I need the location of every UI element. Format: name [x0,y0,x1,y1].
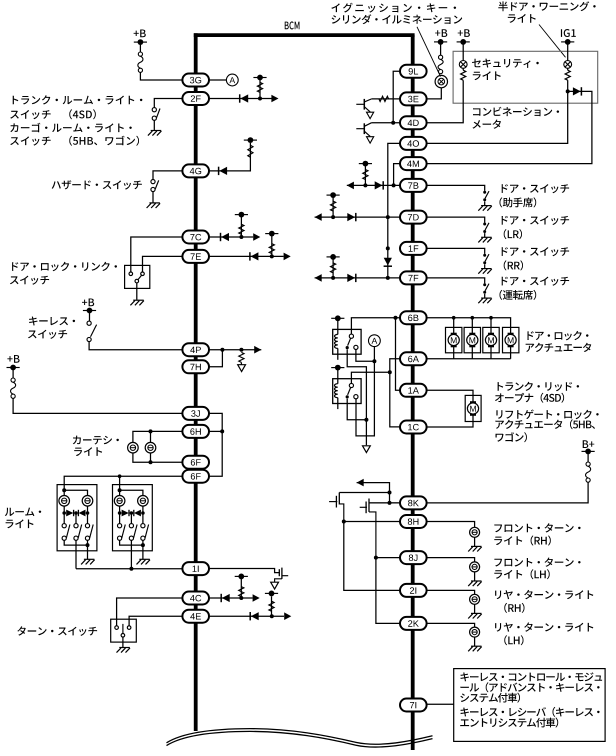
motor trunk lid opener [467,402,478,415]
wire 4C to turn switch [117,598,183,626]
label door lock link switch line2 [10,276,49,285]
door lock actuator 3 box [483,327,499,352]
BCM right bus [411,35,415,750]
wire 6F to room lights feed [64,476,183,488]
switch room light 2 sw2 [129,524,137,541]
wire +B to keyless switch [89,311,91,322]
wire 4P signal row [209,349,262,351]
label BCM [285,21,300,29]
wire fuse to 3J [13,398,183,413]
power node +B supply (security) [457,39,470,45]
wire relay2 coil stub [337,398,339,409]
power node B+ supply (8K) [582,449,595,455]
wire actuator 4 feed drop [510,327,512,333]
power node +B supply (3J) [7,365,20,371]
label door switch 3 line1 [502,247,569,256]
open arrow 4P link out [238,365,246,372]
junction room2 out join [129,567,133,571]
BCM top bus [194,33,415,37]
label +B [435,29,447,37]
wire 8H row [344,522,401,591]
junction tie at 6H [220,429,224,433]
wire 4M to 7B node [394,164,401,186]
wire room1 mid to sw2 [75,513,77,524]
junction 4C pull-up [239,596,243,600]
wire actuator 1 return [453,346,455,358]
label rear turn light LH line2 [504,635,523,645]
ground room light 2 ground [137,559,151,564]
terminal 9L [400,65,427,78]
terminal 7C [182,231,209,244]
label ignition key illumination line2 [332,14,463,24]
terminal 6H [182,425,209,438]
label door switch 2 line1 [502,216,569,225]
wire door switch row 4 [426,278,484,284]
wire 4G to hazard switch [153,171,183,180]
diode room1 right [79,510,86,517]
wire fuse to 8K [426,482,588,503]
switch trunk room light switch [152,108,160,121]
wire room1 sw1 return [64,540,87,545]
wire +B to fuse [139,42,141,52]
open arrow Q1 emitter [367,112,374,118]
relay 2 coil [334,384,337,398]
fuse main fuse (3G feed) [138,52,143,72]
label cargo room light switch line2 [10,136,139,146]
resistor R (7F) [331,263,336,273]
label cargo room light switch line1 [10,123,132,133]
resistor R (4E pull-up) [269,601,274,611]
terminal 3E [400,92,427,105]
wire courtesy return 1 [133,453,183,462]
junction room1 diode L [62,511,66,515]
resistor R (7D) [331,201,336,211]
label trunk room light switch line2 [10,109,96,119]
junction room1 diode R [86,511,90,515]
lamp room light 1 bulb L [59,496,70,507]
diode D (7D) [347,213,356,221]
leader ignition illumination [417,27,441,77]
transistor Q2 (4D driver) [356,123,371,137]
label turn switch [17,626,97,636]
wire keyless switch to 4P [89,342,183,350]
label +B [7,355,19,363]
transistor FET (1I) [275,568,289,582]
wire 7C to link switch [131,237,183,272]
label liftgate line1 [496,410,598,420]
junction room1 return join [86,543,90,547]
power node +B supply (keyless) [83,308,96,314]
power node pull-up supply (4C) [235,574,248,580]
power node pull-up supply (4G) [244,137,257,143]
junction room light 2 feed tap [118,474,122,478]
wire room2 lamp1 to sw1 [119,506,121,523]
junction 7D pull-up [331,215,335,219]
arrow 7D link [315,213,322,221]
wire door switch 2 to ground [484,233,486,237]
terminal 2K [400,617,427,630]
label door switch 1 line2 [500,197,537,207]
door lock actuator 4 box [503,327,519,352]
resistor R (7E pull-up) [269,244,274,254]
terminal 4G [182,164,209,177]
lamp front turn light RH [470,527,480,537]
diode room1 left [66,510,73,517]
motor door lock actuator 1 [448,334,459,347]
power node B+ supply (relay2 coil) [331,365,344,371]
terminal 6F (lower) [182,470,209,483]
wire 2F pull-up row [209,98,272,100]
junction relay out join [364,418,368,422]
terminal 8K [400,496,427,509]
switch room light 2 sw3 [141,524,149,541]
wire 7E resistor link [271,235,273,256]
terminal 7E [182,250,209,263]
wire actuator 1 feed drop [453,318,455,334]
wire 7C resistor link [240,216,242,237]
fuse fuse (3J feed) [11,378,16,398]
power node IG1 supply [561,39,574,45]
wire 7F row [315,277,401,279]
label door lock actuator line1 [527,331,588,341]
terminal 4M [400,157,427,170]
terminal 8J [400,551,427,564]
label B+ [583,440,595,448]
wire fuse to 3G [140,72,182,80]
label +B [134,30,146,38]
junction 7E pull-up [270,254,274,258]
junction actuator 2 feed [471,316,475,320]
label front turn light RH line2 [494,536,551,546]
label combination meter line1 [473,107,559,117]
lamp half door warning light [564,61,572,69]
wire Q2 collector to 4D [372,122,401,124]
wire door switch 1 to ground [484,201,486,205]
arrow 7C signal out [253,233,260,241]
wire door switch row 1 [426,185,484,191]
label room light line1 [5,508,41,517]
terminal 4D [400,116,427,129]
wire warning diode row [426,91,592,163]
label door switch 3 line2 [504,260,523,270]
label security light line2 [473,71,501,80]
switch door-lock-link contacts [129,272,144,283]
transistor FET1 (8K) [329,493,389,522]
terminal 1A [400,384,427,397]
junction 8H/FET1 node [342,520,346,524]
wire 7D resistor link [332,197,334,218]
label keyless module line2 [460,682,599,692]
wire room1 lamp1 to sw1 [63,506,65,523]
wire Q1 collector to 3E [372,98,401,100]
resistor R (4P) [239,352,244,362]
door lock actuator 2 box [464,327,480,352]
wire hazard switch to ground [152,192,154,203]
lamp courtesy light 2 [145,442,156,453]
label keyless module line3 [460,693,520,703]
wire 7E to link switch [143,256,183,272]
label front turn light RH line1 [494,523,580,532]
switch hazard switch [151,180,159,192]
wire turn switch to ground [122,637,124,647]
wire 7B resistor link [364,165,366,185]
lamp front turn light LH [470,562,480,572]
wire room2 feed bar [120,490,143,495]
lamp rear turn light RH [470,594,480,604]
wire front turn light RH to ground [474,537,476,546]
junction courtesy return join [149,460,153,464]
junction 7F chain node [386,276,390,280]
motor door lock actuator 4 [505,334,516,347]
wire harness wave [167,729,433,745]
label door switch 2 line2 [504,229,522,239]
wire room lights to 1I [76,568,183,570]
ground rear turn light RH ground [468,613,482,618]
label keyless module line4 [461,707,600,717]
wire 7C pull-up row [209,236,254,238]
label trunk room light switch line1 [13,95,143,104]
junction 4P to 7H tap [220,348,224,352]
ground door switch 3 ground [478,269,492,274]
junction 8K node [388,501,392,505]
wire 4E row [209,615,284,617]
wire door switch 4 to ground [484,294,486,298]
door lock link switch box [125,265,150,288]
label liftgate line3 [496,432,527,442]
power node pull-up supply (7C) [235,212,248,218]
room light unit 2 box [113,485,153,551]
label door lock link switch line1 [12,262,117,272]
wire room1 feed bar [64,490,87,495]
switch room light 2 sw1 [118,524,126,541]
label trunk lid line2 [495,393,564,403]
ground front turn light LH ground [468,581,482,586]
wire warning node to 4O [426,91,567,143]
lamp room light 2 bulb L [114,496,125,507]
label keyless module line5 [460,718,558,728]
junction actuator 3 feed [489,316,493,320]
label half door warning line1 [498,1,595,11]
terminal 2F [182,92,209,105]
wire room2 lamp2 to sw3 [142,506,144,523]
wire IG1 to warning lamp [567,42,569,61]
wire 6H to tie [209,430,223,432]
junction 9L/4D node [391,121,395,125]
wire 8J row [376,558,400,624]
arrow 7F link [315,274,322,282]
resistor R (warning) [565,70,570,80]
switch turn-switch contacts [115,624,131,637]
wire B+ to fuse [587,451,589,462]
label keyless switch line1 [29,317,75,326]
diode D (7B) [375,181,384,189]
label +B [458,29,470,37]
wire relay1 NC to A line [356,349,375,361]
wire 4P tap down to 7H [209,350,223,367]
wire relay1 coil feed [337,318,339,334]
motor door lock actuator 2 [467,334,478,347]
label trunk lid line1 [498,382,580,392]
wire security lamp to resistor [462,68,464,70]
wire room2 mid to sw2 [130,513,132,524]
label +B [82,299,94,307]
wire 7E pull-up row [209,255,284,257]
terminal 6A [400,352,427,365]
wire 4E pull-up link [271,596,273,616]
wire rear turn light LH to ground [474,637,476,646]
resistor R (4C pull-up) [239,587,244,597]
resistor R (2F pull-up) [257,82,262,92]
resistor R (7B) [363,170,368,180]
combination meter box [453,51,598,103]
trunk lid opener box [465,395,481,421]
ground room light 1 ground [81,559,95,564]
wire 8K row [369,502,400,504]
junction FET1 drain node [388,491,392,495]
junction 4M/7B node [392,183,396,187]
label door switch 1 line1 [502,184,569,193]
wire rear turn light RH to ground [474,604,476,613]
wire 7D row [315,216,401,218]
terminal 3G [182,74,209,87]
wire door switch row 2 [426,217,484,223]
wire 3G to connector A [209,79,227,81]
label combination meter line2 [473,120,502,129]
wire link switch to ground [136,283,138,300]
wire 4E to turn switch [129,616,183,626]
wire front turn light LH row [426,558,474,562]
switch keyless [87,321,97,342]
ground door switch 1 ground [478,206,492,211]
junction 8J/FET2 node [374,556,378,560]
junction room2 diode L [118,511,122,515]
junction 7F pull-up [331,276,335,280]
terminal 6F (upper) [182,456,209,469]
wire 7I to keyless module [426,703,453,705]
open arrow Q2 emitter [367,137,374,143]
turn switch box [111,619,137,642]
keyless control module box [454,669,605,742]
switch door switch 2 [483,223,489,234]
switch door switch 4 [483,283,489,294]
relay 1 box [333,329,361,354]
lamp courtesy light 1 [128,442,139,453]
junction relay2 feed node [388,370,392,374]
terminal 4P [182,343,209,356]
terminal 1F [400,242,427,255]
transistor Q1 (3E driver) [356,99,371,112]
junction 2F pull-up [258,97,262,101]
junction A/relay1 NC node [372,359,376,363]
wire room1 sw2 out [75,540,77,568]
diode D (4M link) [573,87,582,95]
junction 6B/1A node [394,316,398,320]
wire 1I to FET gate [209,569,280,573]
switch door switch 1 [483,191,489,202]
terminal 3J [182,407,209,420]
ground door switch 4 ground [478,298,492,303]
label front turn light LH line1 [494,558,580,567]
wire room2 to ground [142,545,144,559]
label door switch 4 line1 [502,277,569,286]
lamp ignition key cylinder illumination [435,75,447,87]
terminal 4O [400,137,427,150]
power node link supply (4E) [265,591,278,597]
junction warning node [566,89,570,93]
ground link switch ground [130,300,144,305]
wire 4C resistor link [240,578,242,598]
wire room light2 feed drop [119,476,121,488]
diode D (1F-7F) [384,258,392,267]
diode D (7E) [250,252,259,260]
open arrow relay link out [363,446,371,453]
open arrow FET link out (1I) [271,582,279,589]
label rear turn light RH line2 [504,603,524,613]
junction room2 diode R [141,511,145,515]
ground front turn light RH ground [468,546,482,551]
room light unit 1 box [57,485,97,551]
wire actuator 3 return [490,346,492,358]
ground turn switch ground [117,648,131,653]
resistor R (Q1 collector) [379,96,389,101]
transistor FET2 (8K) [360,499,399,558]
wire room2 sw2 out [130,540,132,568]
label courtesy light line1 [73,436,119,445]
wire relay2 feed [351,372,389,383]
wire room1 to ground [87,545,89,559]
diode D (2F) [240,94,249,102]
junction actuator 1 feed [452,316,456,320]
junction 4O/1F node [386,246,390,250]
junction 4O/7D node [386,215,390,219]
diode D (7F) [347,274,356,282]
wire 4O chain [388,143,401,278]
wire front turn light LH to ground [474,572,476,581]
arrow 7B link [347,182,354,190]
power node pull-up supply (7D) [327,192,340,198]
wire door switch row 3 [426,248,484,254]
fuse fuse (ign illum) [438,55,443,73]
wire +B to fuse (ign) [440,42,442,55]
wire 6B node to 1A [396,318,401,391]
wire ign lamp to 3E [426,88,441,99]
lamp room light 2 bulb R [138,496,149,507]
wire room1 lamp2 to sw3 [87,506,89,523]
switch room light 1 sw2 [74,524,82,541]
junction room1 diode M [74,511,78,515]
junction room2 diode M [130,511,134,515]
wire relay2 NO out [347,399,366,420]
label liftgate line2 [495,419,595,429]
label rear turn light LH line1 [495,622,593,631]
wire opener feed [472,395,474,402]
relay 2 box [333,379,361,404]
power node B+ supply (relay1 coil) [331,315,344,321]
terminal 7H [182,360,209,373]
wire security to 4D [426,80,463,123]
terminal 7B [400,179,427,192]
label ignition key illumination line1 [331,3,456,13]
terminal 8H [400,515,427,528]
wire 4C pull-up row [209,597,253,599]
arrow flasher link [357,479,364,487]
diode D (4C) [221,594,230,602]
arrow 7E signal out [284,253,291,261]
wire rear turn light LH row [426,623,474,627]
switch room light 1 sw3 [85,524,93,541]
junction 7C pull-up [239,235,243,239]
terminal 2I [400,584,427,597]
